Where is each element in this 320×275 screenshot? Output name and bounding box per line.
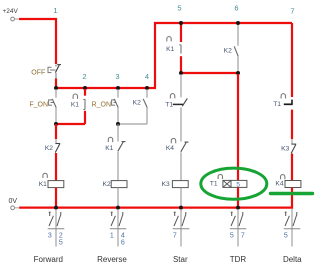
cross-reference K1 Forward [48, 209, 65, 247]
svg-text:T1: T1 [210, 180, 218, 187]
coil K2 [103, 181, 127, 208]
svg-text:6: 6 [234, 4, 238, 13]
svg-text:6: 6 [121, 239, 125, 246]
wire +24V feed to column 1 [19, 19, 56, 64]
svg-text:K1: K1 [105, 145, 113, 152]
svg-text:K4: K4 [275, 180, 283, 187]
contact K2 seal-in (NO, open) [133, 89, 148, 124]
wire K4 coil to 0V rail [19, 188, 292, 208]
contact K1 (NC, open) [105, 137, 125, 180]
svg-text:K1: K1 [166, 46, 174, 53]
cross-reference K4 Delta [284, 209, 301, 247]
wire OFF bottom to row [55, 79, 57, 89]
coil K4 [275, 175, 300, 188]
svg-text:Star: Star [173, 255, 188, 264]
contact K1 seal-in (NO, closed) [71, 89, 85, 124]
rail dot K3 [179, 206, 183, 210]
rail dot K2 [116, 206, 120, 210]
contact K1 rung5 (NO, closed) [166, 24, 181, 73]
svg-text:7: 7 [241, 232, 245, 239]
svg-text:TDR: TDR [230, 255, 247, 264]
svg-text:3: 3 [115, 72, 119, 81]
svg-text:7: 7 [290, 7, 294, 16]
terminal 0V [11, 206, 20, 210]
junction dot OR-row col5 [179, 71, 183, 75]
svg-text:K2: K2 [103, 181, 111, 188]
svg-text:7: 7 [173, 232, 177, 239]
svg-text:Reverse: Reverse [97, 255, 127, 264]
wire OR-row rung5/6 [181, 72, 238, 74]
contact R_ON (NO, open) [92, 89, 119, 124]
junction dot row1 col3 [116, 86, 120, 90]
wire column6 below OR-row [237, 74, 239, 181]
svg-text:Delta: Delta [283, 255, 302, 264]
junction dot OR-row col6 [236, 71, 240, 75]
coil T1 timer (with X box and value 5) [210, 174, 247, 207]
contact T1 rung7 (NO timed, closed) [273, 94, 292, 139]
svg-text:K3: K3 [162, 181, 170, 188]
pushbutton OFF (NC, closed) [31, 65, 61, 80]
svg-text:4: 4 [145, 72, 149, 81]
svg-text:5: 5 [177, 4, 181, 13]
svg-text:K2: K2 [133, 100, 141, 107]
svg-text:T1: T1 [273, 101, 281, 108]
svg-text:5: 5 [230, 232, 234, 239]
svg-text:K2: K2 [45, 145, 53, 152]
svg-text:0V: 0V [9, 198, 18, 205]
wire column5 below OR-row [180, 74, 182, 97]
svg-text:1: 1 [53, 6, 57, 15]
svg-text:OFF: OFF [31, 69, 45, 76]
svg-text:K1: K1 [71, 101, 79, 108]
svg-text:F_ON: F_ON [29, 102, 48, 109]
wire column3 to K1 NC [117, 124, 119, 142]
svg-text:5: 5 [284, 232, 288, 239]
svg-text:1: 1 [110, 232, 114, 239]
coil K3 [162, 181, 189, 208]
contact K2 rung6 (NO, open) [224, 24, 239, 72]
svg-text:4: 4 [121, 232, 125, 239]
junction dot row1 col1 [54, 86, 58, 90]
contact K2 (NC, closed) [45, 139, 60, 181]
wire seal row right (gray) [118, 123, 147, 125]
contact T1 rung5 (NC timed, open) [165, 94, 187, 142]
terminal +24V [11, 17, 20, 21]
svg-text:5: 5 [236, 181, 240, 188]
annotation green underline [271, 192, 313, 195]
contact K3 rung7 (NC, closed) [281, 139, 296, 181]
node dot rail col6 [236, 21, 240, 25]
svg-text:R_ON: R_ON [92, 102, 111, 109]
junction dot seal row [54, 122, 58, 126]
svg-text:K3: K3 [281, 145, 289, 152]
svg-text:+24V: +24V [3, 8, 19, 15]
svg-text:2: 2 [82, 72, 86, 81]
svg-text:3: 3 [48, 232, 52, 239]
cross-reference K2 Reverse [110, 209, 127, 247]
svg-text:Forward: Forward [34, 255, 63, 264]
wire column1 to K2 NC [55, 124, 57, 139]
contact F_ON (NO, open) [29, 89, 56, 123]
annotation green ellipse around T1 coil [201, 168, 267, 199]
junction dot seal row right [116, 122, 120, 126]
rail dot T1 [236, 206, 240, 210]
wire seal row left (red) [56, 123, 85, 125]
node dot rail col5 [179, 21, 183, 25]
svg-text:K2: K2 [224, 48, 232, 55]
contact K4 rung5 (NC, open) [166, 138, 189, 180]
cross-reference K3 Star [173, 209, 190, 247]
coil K1 [39, 173, 64, 207]
svg-text:5: 5 [59, 239, 63, 246]
cross-reference T1 TDR [230, 209, 247, 247]
svg-text:K1: K1 [39, 181, 47, 188]
svg-text:T1: T1 [165, 102, 173, 109]
junction dot row1 col4 [145, 86, 149, 90]
wire column7 from rail [291, 23, 293, 97]
junction dot row1 col2 [83, 86, 87, 90]
svg-text:2: 2 [59, 232, 63, 239]
wire junction row (rung feed) [56, 23, 292, 88]
rail dot K1 [54, 206, 58, 210]
svg-text:K4: K4 [166, 145, 174, 152]
